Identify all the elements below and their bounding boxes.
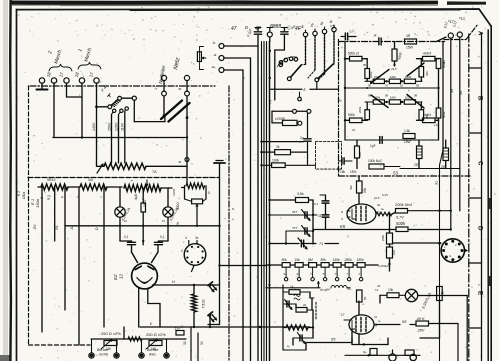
svg-text:110V: 110V	[121, 122, 125, 131]
svg-text:•1: •1	[449, 254, 452, 258]
svg-text:30: 30	[200, 341, 204, 345]
svg-text:100Ω: 100Ω	[176, 202, 180, 210]
svg-text:1k: 1k	[290, 285, 294, 289]
svg-text:800k: 800k	[442, 111, 446, 118]
svg-text:200k: 200k	[358, 106, 362, 113]
svg-text:x6: x6	[352, 128, 356, 132]
svg-text:8: 8	[178, 161, 182, 163]
svg-text:4W: 4W	[349, 185, 353, 190]
svg-text:8: 8	[178, 88, 182, 90]
svg-text:11: 11	[318, 214, 322, 218]
svg-text:0,1: 0,1	[160, 235, 165, 239]
svg-text:0,1: 0,1	[314, 202, 319, 206]
svg-text:47: 47	[231, 26, 237, 32]
svg-text:98: 98	[385, 94, 389, 98]
svg-text:95: 95	[363, 63, 367, 67]
svg-text:34: 34	[377, 284, 381, 288]
svg-text:links: links	[149, 353, 156, 357]
svg-text:C: C	[477, 161, 484, 166]
svg-text:12: 12	[124, 219, 128, 223]
svg-text:99: 99	[416, 84, 420, 88]
svg-text:40 K: 40 K	[417, 316, 426, 321]
svg-text:200k: 200k	[369, 71, 373, 78]
svg-text:2k: 2k	[303, 303, 307, 307]
svg-text:2380: 2380	[381, 234, 385, 241]
svg-text:10k: 10k	[392, 250, 396, 255]
svg-text:0,1: 0,1	[124, 235, 129, 239]
svg-text:1,5k: 1,5k	[404, 129, 410, 133]
svg-text:12: 12	[162, 219, 166, 223]
svg-text:98: 98	[414, 94, 418, 98]
svg-text:15%: 15%	[350, 170, 357, 174]
svg-text:10M: 10M	[390, 75, 396, 79]
svg-text:92: 92	[400, 84, 404, 88]
svg-text:F: F	[381, 208, 385, 210]
svg-text:-b: -b	[212, 41, 215, 45]
svg-text:32: 32	[183, 341, 187, 345]
svg-text:140V: 140V	[92, 122, 96, 131]
svg-text:17: 17	[341, 313, 345, 317]
svg-text:71: 71	[319, 242, 323, 246]
svg-text:74: 74	[269, 100, 273, 104]
svg-text:•: •	[50, 195, 51, 198]
svg-text:g₂: g₂	[297, 272, 300, 276]
svg-text:31: 31	[435, 181, 439, 185]
svg-text:12: 12	[119, 274, 124, 279]
svg-text:28V: 28V	[417, 329, 425, 333]
svg-text:m₁: m₁	[335, 272, 338, 276]
svg-text:6,7V: 6,7V	[396, 216, 404, 220]
svg-text:u: u	[341, 217, 343, 221]
svg-text:20k: 20k	[363, 187, 367, 193]
svg-text:180k: 180k	[357, 258, 365, 262]
svg-text:15W: 15W	[404, 140, 411, 144]
svg-text:2k: 2k	[276, 145, 280, 149]
svg-text:a₁: a₁	[323, 272, 326, 276]
svg-text:3µ: 3µ	[363, 350, 367, 354]
svg-text:3x: 3x	[195, 236, 199, 240]
svg-text:40: 40	[459, 91, 463, 95]
svg-text:4: 4	[185, 236, 187, 240]
svg-text:ε: ε	[304, 87, 306, 92]
svg-text:75T: 75T	[292, 226, 297, 230]
svg-text:Buchse: Buchse	[147, 348, 158, 352]
svg-text:↗4: ↗4	[374, 288, 379, 292]
svg-text:55: 55	[331, 337, 336, 342]
svg-text:rechts: rechts	[99, 353, 109, 357]
svg-text:4r: 4r	[61, 195, 64, 199]
svg-text:a: a	[341, 210, 343, 214]
svg-text:E: E	[374, 316, 378, 318]
svg-text:15W: 15W	[406, 46, 414, 50]
svg-text:16k: 16k	[295, 258, 301, 262]
svg-text:53: 53	[393, 171, 398, 176]
svg-text:ε0,5: ε0,5	[374, 196, 380, 200]
svg-text:E: E	[177, 221, 180, 226]
svg-text:-a₁: -a₁	[211, 65, 216, 69]
svg-text:6 J: 6 J	[17, 191, 21, 196]
svg-text:250 Ω ±2%: 250 Ω ±2%	[146, 332, 166, 337]
svg-text:160V: 160V	[143, 199, 147, 207]
svg-text:90: 90	[368, 84, 372, 88]
svg-text:±10%: ±10%	[172, 188, 176, 196]
svg-text:º17: º17	[459, 16, 466, 21]
svg-text:97: 97	[385, 84, 389, 88]
svg-text:130a: 130a	[22, 192, 26, 199]
svg-text:150V: 150V	[107, 122, 111, 131]
svg-text:↗: ↗	[130, 179, 133, 183]
svg-text:7A: 7A	[152, 170, 157, 174]
svg-text:x9,5: x9,5	[391, 67, 397, 71]
svg-text:3,5k: 3,5k	[297, 192, 304, 196]
svg-text:15k: 15k	[340, 170, 346, 174]
svg-text:30r: 30r	[88, 178, 94, 182]
svg-text:200k No3: 200k No3	[394, 202, 413, 207]
svg-text:4m04: 4m04	[423, 113, 431, 117]
svg-text:2: 2	[181, 249, 183, 253]
svg-text:2µ: 2µ	[300, 136, 304, 140]
svg-text:4µ8: 4µ8	[134, 194, 138, 200]
svg-text:8M: 8M	[308, 258, 313, 262]
svg-text:-5V: -5V	[33, 224, 37, 230]
svg-text:J1: J1	[70, 226, 74, 230]
svg-text:Π102: Π102	[202, 299, 206, 308]
svg-text:40: 40	[374, 323, 378, 327]
svg-text:145k: 145k	[333, 258, 341, 262]
svg-text:80k: 80k	[282, 258, 288, 262]
svg-text:4m04: 4m04	[423, 52, 431, 56]
svg-text:80k: 80k	[321, 258, 327, 262]
svg-text:A: A	[477, 31, 484, 36]
svg-text:B: B	[477, 96, 484, 101]
svg-text:800k: 800k	[442, 61, 446, 68]
svg-text:100k No2: 100k No2	[368, 159, 382, 163]
svg-text:280k: 280k	[344, 258, 353, 262]
svg-text:39: 39	[450, 89, 454, 93]
svg-text:250 Ω ±2%: 250 Ω ±2%	[101, 331, 121, 336]
svg-text:1µF: 1µF	[370, 144, 376, 148]
svg-text:30k: 30k	[425, 71, 429, 76]
svg-text:0,150μF: 0,150μF	[378, 264, 389, 268]
svg-text:10k: 10k	[388, 288, 394, 292]
svg-text:EZ: EZ	[113, 274, 118, 280]
svg-text:10k: 10k	[358, 152, 362, 157]
svg-text:500k x2: 500k x2	[348, 52, 359, 56]
svg-text:Buchse: Buchse	[97, 348, 108, 352]
svg-text:4R: 4R	[406, 34, 411, 38]
svg-text:F: F	[378, 320, 382, 322]
svg-text:N: N	[232, 207, 234, 211]
svg-text:ε: ε	[150, 321, 152, 326]
svg-text:H: H	[172, 279, 175, 284]
svg-text:4V-: 4V-	[55, 224, 59, 230]
svg-text:E: E	[477, 291, 484, 295]
svg-text:9R±2: 9R±2	[47, 178, 56, 182]
svg-text:K5: K5	[340, 224, 346, 229]
svg-text:5: 5	[208, 191, 210, 195]
svg-text:g₁: g₁	[284, 272, 287, 276]
svg-text:500k: 500k	[348, 113, 355, 117]
svg-text:6,3V: 6,3V	[382, 193, 388, 197]
svg-text:50: 50	[363, 296, 367, 300]
svg-text:10M: 10M	[390, 96, 396, 100]
svg-text:25T: 25T	[292, 210, 297, 214]
svg-text:m: m	[268, 283, 271, 287]
svg-text:125V: 125V	[114, 122, 118, 131]
svg-text:100k: 100k	[272, 158, 280, 162]
svg-text:500k: 500k	[396, 221, 406, 226]
svg-text:D: D	[477, 226, 484, 231]
svg-text:55: 55	[402, 319, 407, 324]
